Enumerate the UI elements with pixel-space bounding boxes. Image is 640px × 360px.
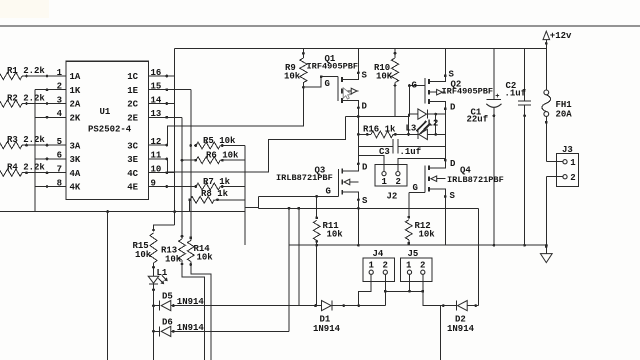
svg-text:1: 1 [57,68,63,78]
svg-text:20A: 20A [556,110,573,120]
svg-text:3A: 3A [70,141,81,151]
wire opto cathode bus [34,90,36,212]
svg-text:FH1: FH1 [556,100,573,110]
diode D6 1N914 [154,330,160,332]
svg-text:D2: D2 [455,314,466,324]
wire rail B drop [107,212,109,360]
svg-text:10k: 10k [284,72,301,82]
Q3 channel [341,169,343,174]
resistor R2 2.2k [0,100,22,107]
svg-text:16: 16 [151,68,162,78]
svg-text:4: 4 [57,109,63,119]
svg-text:J2: J2 [387,192,398,202]
wire J5 pin1 [409,274,411,291]
wire R14 to bottom [191,265,211,360]
wire mid source rail [258,196,260,208]
Q2 gate bar [424,78,426,104]
Q1 source [342,73,358,80]
resistor R5 10k [194,144,197,147]
U1 pin 1 (1A) [47,75,66,77]
svg-text:1N914: 1N914 [177,297,205,307]
svg-text:R8 1k: R8 1k [201,189,229,199]
svg-text:1K: 1K [70,86,81,96]
wire R13 to bottom [182,264,204,360]
resistor R15 10k [152,229,155,232]
power +12v [543,31,550,39]
LED arrows [416,121,426,131]
svg-text:G: G [412,81,417,91]
wire J4 pin2 [384,274,386,305]
wire left gnd rail [0,211,245,213]
wire 3E to Q1 drain net [168,117,346,173]
wire J5 pin2 to D2 [423,274,457,305]
wire drain to Q2 gate [346,116,410,118]
svg-text:D: D [450,103,456,113]
wire LED left rail [408,114,410,134]
svg-text:G: G [326,187,331,197]
resistor R16 1k [358,133,371,135]
svg-text:IRF4905PBF: IRF4905PBF [442,87,494,97]
svg-text:3E: 3E [127,155,138,165]
svg-text:D: D [362,102,368,112]
wire cathode pin [35,158,47,160]
svg-text:2: 2 [570,173,575,183]
wire Q1 gate [303,77,321,88]
connector J2 [357,146,359,155]
svg-text:1: 1 [570,158,576,168]
capacitor C3 .1uf [358,145,393,147]
wire D2 node to bottom [439,306,441,360]
svg-text:D: D [450,159,456,169]
svg-text:S: S [362,196,368,206]
svg-text:+: + [495,93,499,101]
svg-text:10k: 10k [197,253,214,263]
svg-text:7: 7 [57,165,62,175]
Q4 body arrow [431,176,437,182]
svg-text:PS2502-4: PS2502-4 [88,125,132,135]
wire D5 to rail A [298,208,300,305]
svg-text:1N914: 1N914 [177,323,205,333]
svg-text:J4: J4 [373,249,384,259]
resistor R10 10K [394,48,396,58]
diode D1 1N914 [314,304,317,307]
U1 pin 8 (4K) [47,186,66,188]
svg-text:3: 3 [57,95,62,105]
svg-text:1N914: 1N914 [313,324,341,334]
wire Q4 source to rails [444,197,446,246]
svg-text:IRF4905PBF: IRF4905PBF [307,62,359,72]
U1 pin 2 (1K) [47,89,66,91]
U1 pin 15 (1E) [148,89,166,91]
svg-text:R1 2.2k: R1 2.2k [7,66,45,76]
wire Q3 source to rails [357,200,359,245]
svg-text:2: 2 [420,261,425,271]
U1 pin 5 (3A) [47,144,66,146]
Q2 drain [429,102,445,109]
Q1 channel [341,77,343,82]
cursor [343,88,351,99]
svg-text:+12v: +12v [550,31,572,41]
svg-text:1A: 1A [70,72,81,82]
svg-text:4A: 4A [70,169,81,179]
Q4 gate bar [424,166,426,193]
svg-text:D6: D6 [162,317,173,327]
svg-text:10k: 10k [135,250,152,260]
svg-text:10k: 10k [419,230,436,240]
svg-text:J3: J3 [562,145,573,155]
svg-text:1N914: 1N914 [447,324,475,334]
svg-text:R5 10k: R5 10k [203,136,236,146]
svg-text:10: 10 [151,165,162,175]
capacitor C1 22uf [493,48,495,99]
svg-text:2E: 2E [127,114,138,124]
wire 1E [167,89,191,91]
svg-text:2K: 2K [70,114,81,124]
U1 pin 7 (4A) [47,172,66,174]
wire LED right rail [435,114,437,134]
svg-text:2A: 2A [70,100,81,110]
svg-text:1: 1 [382,177,388,187]
fuse FH1 20A [545,48,547,90]
U1 pin 13 (2E) [148,116,166,118]
svg-text:L1: L1 [157,268,168,278]
svg-text:D1: D1 [320,314,331,324]
svg-text:12: 12 [151,137,162,147]
svg-text:4E: 4E [127,183,138,193]
resistor R13 10k [181,236,183,239]
svg-text:D5: D5 [162,292,173,302]
wire lower gnd rail [289,244,546,246]
wire D6 to rail A [288,208,290,331]
svg-text:R3 2.2k: R3 2.2k [7,135,45,145]
svg-text:2: 2 [396,177,401,187]
svg-text:10k: 10k [327,230,344,240]
svg-text:G: G [413,183,418,193]
svg-text:15: 15 [151,82,162,92]
U1 pin 12 (3C) [148,144,166,146]
optocoupler U1 PS2502-4 [66,61,148,199]
Q1 body arrow [342,90,351,92]
svg-text:S: S [362,71,368,81]
svg-text:Q4: Q4 [460,166,471,176]
wire Q2 gate [409,85,425,87]
svg-text:R4 2.2k: R4 2.2k [7,163,45,173]
U1 pin 11 (3E) [148,158,166,160]
svg-text:22uf: 22uf [467,115,489,125]
wire 2E net [181,117,183,236]
U1 pin 6 (3K) [47,158,66,160]
wire collector bus [174,48,176,225]
wire L1 cathode chain [153,306,155,360]
LED L3 [395,133,418,135]
wire Q3 gate line [259,195,339,197]
Q1 gate bar [337,77,339,101]
svg-text:1: 1 [369,261,375,271]
Q1 drain [342,101,358,108]
svg-text:4K: 4K [70,183,81,193]
LED L2 [409,113,418,115]
Q4 channel [428,166,430,171]
wire R8 left to rail B [189,200,191,212]
svg-text:2: 2 [383,261,388,271]
svg-text:1C: 1C [127,72,138,82]
svg-text:2: 2 [57,82,62,92]
wire cathode pin [35,116,47,118]
wire rail A to D2 [478,208,480,305]
svg-text:5: 5 [57,137,62,147]
wire 2C to bus [167,103,175,105]
wire J4-J5 link [385,290,423,292]
wire 4C to bus [167,172,175,174]
svg-text:11: 11 [151,151,162,161]
wire pulldown bus [244,146,246,246]
wire Q2 drain net [444,109,446,160]
resistor R12 10k [408,193,410,218]
svg-text:2C: 2C [127,100,138,110]
svg-text:J5: J5 [408,249,419,259]
wire J4 pin1 [359,274,372,305]
connector J3 [557,153,579,186]
diode D2 1N914 [442,304,445,307]
capacitor C2 .1uf [524,48,526,101]
U1 pin 16 (1C) [148,75,166,77]
wire cathode pin [35,89,47,91]
U1 pin 10 (4C) [148,172,166,174]
svg-text:1: 1 [406,261,412,271]
svg-text:1E: 1E [127,86,138,96]
Q2 body arrow [429,91,437,93]
svg-text:IRLB8721PBF: IRLB8721PBF [447,175,504,185]
svg-text:14: 14 [151,95,162,105]
Q4 drain [429,160,445,168]
svg-text:10k: 10k [165,255,182,265]
wire J3 pin2 to gnd rail [545,177,547,246]
wire +12v rail [175,47,547,49]
svg-text:G: G [325,79,330,89]
ground [545,245,547,253]
svg-text:R6 10k: R6 10k [206,150,239,160]
resistor R9 10k [302,48,304,58]
svg-text:.1uf: .1uf [505,89,527,99]
Q2 source [429,76,445,82]
svg-text:S: S [449,70,455,80]
svg-text:R7 1k: R7 1k [203,177,231,187]
svg-text:IRLB8721PBF: IRLB8721PBF [276,173,333,183]
wire cathode pin [35,186,47,188]
Q3 gate bar [337,169,339,197]
wire Q1 drain net [357,108,359,147]
connector J4 [363,258,395,281]
svg-text:9: 9 [151,178,156,188]
svg-text:10K: 10K [376,72,393,82]
svg-text:D: D [362,163,368,173]
svg-text:L3: L3 [406,124,417,134]
U1 pin 14 (2C) [148,103,166,105]
wire 1E net [190,90,192,238]
svg-text:3K: 3K [70,155,81,165]
resistor R3 2.2k [0,142,22,149]
U1 pin 3 (2A) [47,103,66,105]
wire 2E [167,116,182,118]
Q3 body arrow [344,179,350,185]
svg-text:U1: U1 [100,107,111,117]
Q2 channel [428,79,430,84]
resistor R4 2.2k [0,169,22,176]
diode D5 1N914 [154,305,160,307]
svg-text:13: 13 [151,109,162,119]
resistor R1 2.2k [0,72,22,79]
Q3 drain [342,164,358,171]
resistor R6 10k [182,159,196,161]
wire 3C to Q1 gate [168,87,304,145]
connector J5 [400,258,432,281]
resistor R11 10k [316,196,318,218]
svg-text:6: 6 [57,151,62,161]
svg-text:R2 2.2k: R2 2.2k [7,93,45,103]
svg-text:8: 8 [57,178,62,188]
svg-text:.1uf: .1uf [400,147,422,157]
U1 pin 4 (2K) [47,116,66,118]
Q4 source [429,189,445,197]
resistor R7 1k [167,186,196,188]
resistor R8 1k [188,198,191,201]
svg-text:R16 1k: R16 1k [363,125,396,135]
wire bracket step [245,196,259,207]
Q3 source [342,192,358,200]
svg-text:4C: 4C [127,169,138,179]
svg-text:3C: 3C [127,141,138,151]
resistor R14 10k [190,238,192,241]
svg-text:S: S [450,191,456,201]
wire 1C to bus [167,75,175,77]
U1 pin 9 (4E) [148,186,166,188]
LED L1 [153,268,155,276]
wire Q4 gate [409,192,425,194]
wire top border line [0,25,640,27]
